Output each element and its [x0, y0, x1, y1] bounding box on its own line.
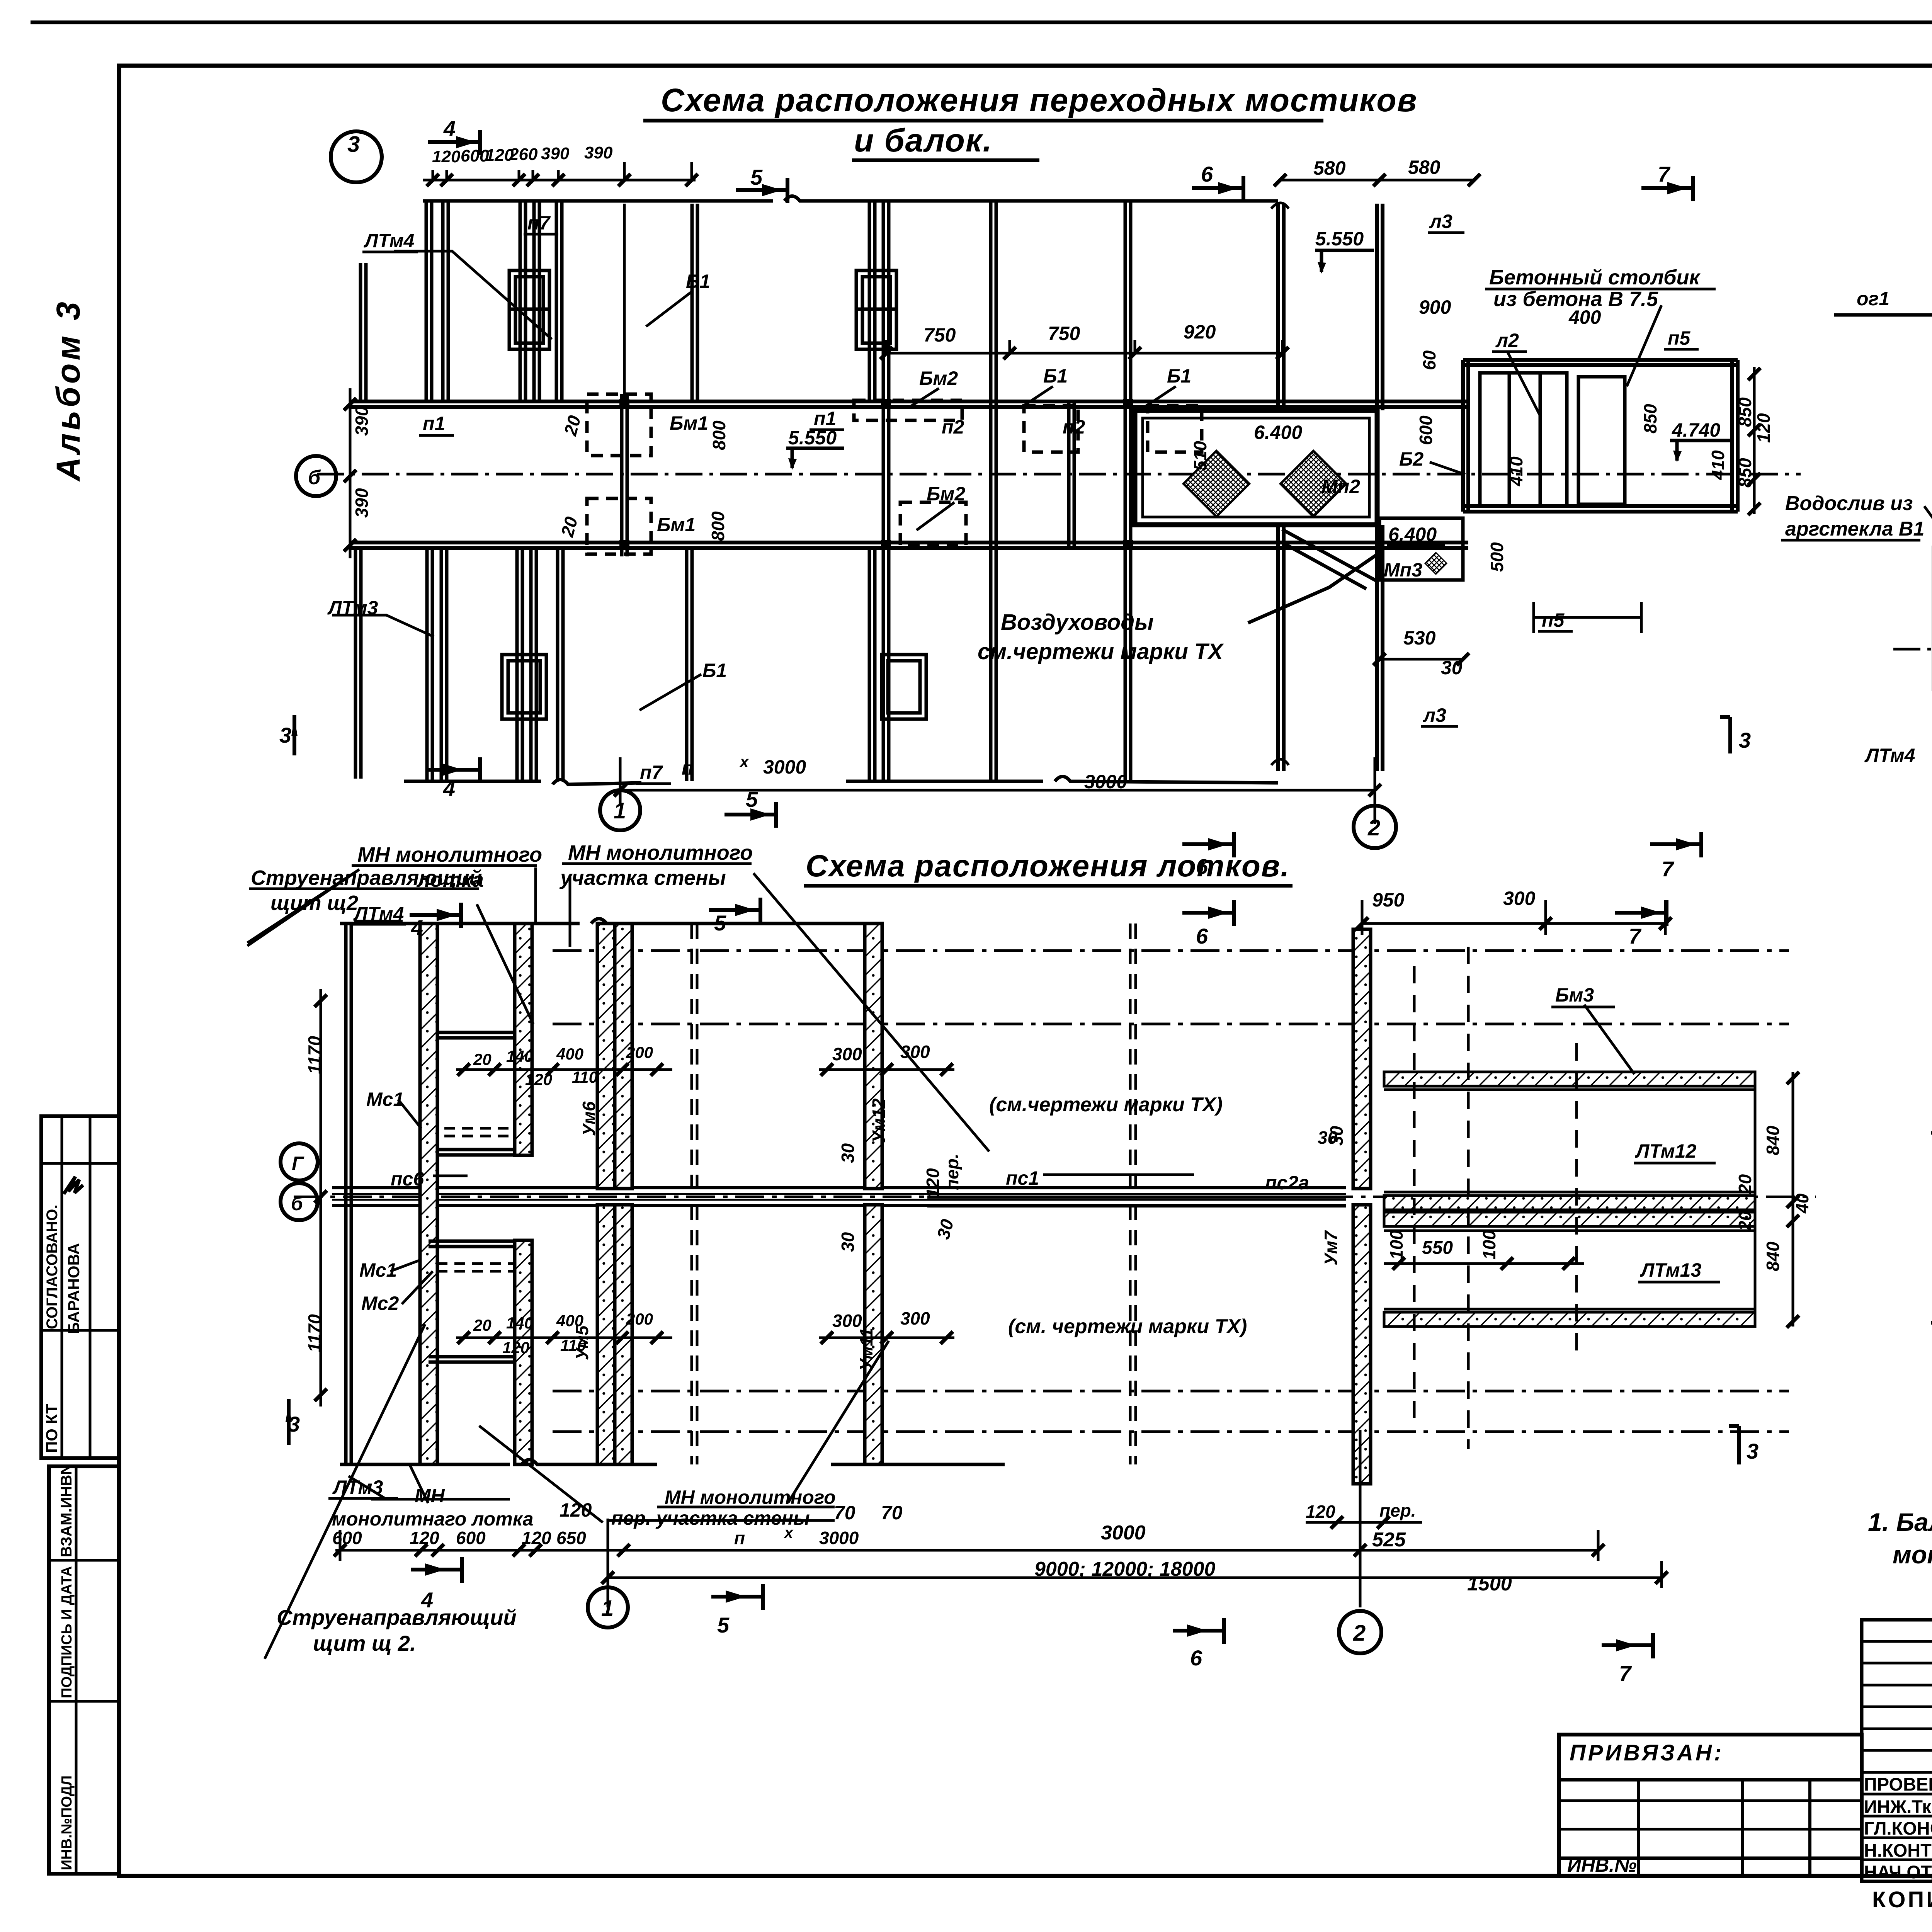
svg-text:щит щ2: щит щ2	[270, 891, 358, 915]
svg-text:6.400: 6.400	[1388, 524, 1437, 545]
svg-text:300: 300	[900, 1042, 930, 1062]
svg-text:5: 5	[746, 787, 758, 811]
svg-text:410: 410	[1506, 456, 1526, 486]
svg-text:30: 30	[1441, 657, 1463, 679]
svg-text:Бм1: Бм1	[670, 412, 708, 434]
svg-text:4: 4	[443, 116, 456, 141]
svg-text:п1: п1	[814, 408, 836, 429]
svg-text:монолитными участками стен.: монолитными участками стен.	[1893, 1540, 1932, 1569]
svg-text:3: 3	[1739, 728, 1751, 752]
svg-text:7: 7	[1629, 924, 1642, 948]
svg-text:Бм1: Бм1	[657, 514, 696, 536]
svg-text:70: 70	[881, 1502, 903, 1524]
svg-text:120: 120	[522, 1528, 551, 1548]
svg-text:390: 390	[352, 488, 372, 518]
svg-text:ЛТм3: ЛТм3	[327, 597, 378, 619]
svg-text:30: 30	[1327, 1126, 1347, 1146]
svg-text:800: 800	[708, 511, 728, 541]
svg-text:Ум7: Ум7	[1321, 1230, 1341, 1265]
svg-text:п7: п7	[640, 762, 663, 783]
svg-text:9000; 12000; 18000: 9000; 12000; 18000	[1034, 1558, 1215, 1580]
svg-text:120: 120	[923, 1168, 943, 1198]
svg-text:Бм2: Бм2	[927, 483, 965, 505]
svg-text:120: 120	[1753, 413, 1774, 443]
svg-text:1: 1	[601, 1596, 614, 1621]
svg-text:ИНЖ.Тк.: ИНЖ.Тк.	[1864, 1796, 1932, 1817]
svg-text:ИНВ.№: ИНВ.№	[1567, 1854, 1636, 1876]
svg-text:70: 70	[834, 1502, 855, 1524]
svg-text:п1: п1	[423, 413, 445, 434]
svg-text:Б1: Б1	[702, 660, 727, 681]
svg-text:60: 60	[1419, 350, 1439, 370]
svg-text:ПО КТ: ПО КТ	[43, 1404, 61, 1453]
svg-text:Ум12: Ум12	[869, 1098, 889, 1143]
svg-text:аргстекла В1: аргстекла В1	[1785, 518, 1924, 540]
svg-text:Струенаправляющий: Струенаправляющий	[251, 866, 482, 889]
svg-text:650: 650	[556, 1528, 586, 1548]
svg-text:Мс1: Мс1	[359, 1259, 397, 1281]
svg-text:400: 400	[1568, 306, 1601, 328]
svg-text:20: 20	[473, 1050, 492, 1068]
svg-text:900: 900	[1419, 296, 1451, 318]
svg-text:Струенаправляющий: Струенаправляющий	[277, 1605, 517, 1629]
svg-text:7: 7	[1662, 857, 1675, 881]
svg-text:300: 300	[1503, 888, 1536, 909]
svg-text:б: б	[308, 466, 321, 489]
svg-text:пер.: пер.	[942, 1153, 962, 1190]
svg-text:100: 100	[1479, 1230, 1499, 1260]
svg-text:510: 510	[1190, 441, 1210, 471]
svg-text:НАЧ.ОТД: НАЧ.ОТД	[1864, 1862, 1932, 1882]
svg-text:950: 950	[1372, 889, 1405, 911]
svg-text:5.550: 5.550	[1315, 228, 1364, 250]
svg-text:200: 200	[626, 1043, 653, 1061]
svg-text:3: 3	[347, 132, 360, 157]
svg-text:Мп3: Мп3	[1384, 559, 1422, 581]
svg-text:120: 120	[432, 147, 461, 166]
svg-text:ЛТм12: ЛТм12	[1635, 1140, 1696, 1162]
svg-text:см.чертежи марки ТХ: см.чертежи марки ТХ	[978, 639, 1224, 664]
svg-text:ЛТм4: ЛТм4	[364, 230, 414, 252]
svg-text:120: 120	[410, 1528, 439, 1548]
svg-text:Ум11: Ум11	[856, 1328, 876, 1371]
svg-text:Б2: Б2	[1399, 448, 1423, 470]
svg-text:ВЗАМ.ИНВN: ВЗАМ.ИНВN	[58, 1464, 75, 1557]
svg-text:Воздуховоды: Воздуховоды	[1001, 610, 1154, 635]
svg-text:ЛТм3: ЛТм3	[332, 1476, 383, 1498]
svg-text:ПРОВЕР.: ПРОВЕР.	[1864, 1774, 1932, 1794]
svg-text:МН монолитного: МН монолитного	[568, 841, 753, 864]
svg-text:п2: п2	[942, 416, 964, 438]
svg-text:300: 300	[900, 1308, 930, 1328]
svg-text:530: 530	[1403, 627, 1436, 649]
svg-text:6: 6	[1196, 924, 1208, 948]
svg-text:20: 20	[1735, 1211, 1755, 1231]
svg-text:КОПИРОВАЛ: ЛОГИНОВА: КОПИРОВАЛ: ЛОГИНОВА	[1872, 1887, 1932, 1912]
svg-text:120: 120	[525, 1070, 552, 1088]
svg-text:3: 3	[279, 723, 291, 747]
svg-text:120: 120	[502, 1338, 529, 1357]
svg-text:140: 140	[506, 1047, 533, 1065]
svg-text:пер. участка стены: пер. участка стены	[611, 1507, 810, 1529]
svg-text:Схема расположения лотков.: Схема расположения лотков.	[806, 849, 1290, 883]
svg-text:30: 30	[838, 1143, 858, 1163]
svg-text:20: 20	[557, 514, 582, 539]
svg-text:260: 260	[509, 145, 538, 164]
svg-text:840: 840	[1763, 1242, 1783, 1271]
svg-text:7: 7	[1658, 162, 1671, 186]
svg-text:Б1: Б1	[686, 270, 710, 292]
svg-text:500: 500	[1487, 542, 1507, 572]
svg-text:850: 850	[1735, 397, 1755, 427]
svg-text:монолитнаго лотка: монолитнаго лотка	[332, 1508, 533, 1530]
svg-text:5: 5	[717, 1613, 730, 1637]
svg-text:750: 750	[1048, 323, 1080, 344]
svg-text:390: 390	[584, 143, 613, 162]
svg-text:2: 2	[1367, 815, 1380, 840]
svg-text:п2: п2	[1063, 416, 1085, 438]
svg-text:20: 20	[1735, 1174, 1755, 1194]
svg-text:525: 525	[1372, 1529, 1406, 1551]
svg-text:Б1: Б1	[1043, 365, 1068, 387]
svg-text:Водослив из: Водослив из	[1785, 492, 1913, 515]
svg-text:1170: 1170	[304, 1036, 325, 1074]
svg-text:х: х	[739, 753, 749, 770]
svg-text:5: 5	[750, 165, 763, 189]
svg-text:2: 2	[1353, 1621, 1366, 1646]
svg-text:3000: 3000	[819, 1528, 859, 1548]
svg-text:ПОДПИСЬ И ДАТА: ПОДПИСЬ И ДАТА	[59, 1566, 75, 1698]
svg-text:600: 600	[461, 146, 489, 165]
svg-text:30: 30	[838, 1232, 858, 1252]
svg-text:ИНВ.№ПОДЛ: ИНВ.№ПОДЛ	[59, 1776, 75, 1870]
svg-text:110: 110	[572, 1068, 598, 1086]
svg-text:СОГЛАСОВАНО.: СОГЛАСОВАНО.	[44, 1204, 61, 1329]
svg-text:(см.чертежи марки ТХ): (см.чертежи марки ТХ)	[989, 1094, 1223, 1116]
svg-text:3: 3	[1747, 1439, 1759, 1463]
svg-text:ГЛ.КОНСТР: ГЛ.КОНСТР	[1864, 1818, 1932, 1838]
svg-text:390: 390	[352, 406, 372, 436]
svg-text:п: п	[734, 1528, 745, 1548]
svg-text:750: 750	[923, 324, 956, 346]
svg-text:п7: п7	[527, 212, 551, 234]
svg-text:х: х	[784, 1524, 794, 1541]
svg-text:МН: МН	[415, 1485, 445, 1507]
svg-text:6: 6	[1201, 162, 1213, 186]
svg-text:Альбом 3: Альбом 3	[50, 299, 87, 482]
svg-text:Схема расположения переходных: Схема расположения переходных мостиков	[661, 82, 1417, 118]
svg-text:б: б	[291, 1193, 304, 1214]
svg-text:участка стены: участка стены	[559, 866, 726, 889]
svg-text:л2: л2	[1495, 330, 1519, 351]
svg-text:4: 4	[421, 1588, 433, 1612]
svg-text:600: 600	[456, 1528, 486, 1548]
svg-text:п5: п5	[1542, 609, 1565, 631]
svg-text:5: 5	[714, 911, 726, 935]
svg-text:1170: 1170	[304, 1314, 325, 1352]
svg-text:МН монолитного: МН монолитного	[665, 1486, 836, 1508]
svg-text:6.400: 6.400	[1254, 422, 1302, 443]
svg-text:840: 840	[1763, 1126, 1783, 1155]
svg-text:БАРАНОВА: БАРАНОВА	[65, 1243, 83, 1334]
svg-text:20: 20	[473, 1316, 492, 1334]
svg-text:Н.КОНТР.: Н.КОНТР.	[1864, 1840, 1932, 1861]
svg-text:300: 300	[832, 1311, 862, 1331]
svg-text:пс1: пс1	[1006, 1167, 1039, 1189]
svg-text:МН монолитного: МН монолитного	[357, 843, 542, 866]
svg-text:6: 6	[1190, 1646, 1202, 1670]
svg-text:3: 3	[288, 1412, 300, 1436]
svg-text:6: 6	[1196, 854, 1208, 879]
svg-text:850: 850	[1735, 458, 1755, 488]
svg-text:4: 4	[411, 915, 423, 940]
svg-text:4.740: 4.740	[1672, 419, 1720, 441]
svg-text:Ум5: Ум5	[572, 1325, 592, 1360]
svg-text:Б1: Б1	[1167, 365, 1191, 387]
svg-text:850: 850	[1640, 404, 1660, 434]
svg-text:30: 30	[933, 1217, 957, 1241]
svg-text:л3: л3	[1423, 704, 1446, 726]
svg-text:300: 300	[832, 1044, 862, 1064]
svg-text:пер.: пер.	[1379, 1500, 1416, 1520]
svg-text:580: 580	[1408, 156, 1440, 178]
svg-text:600: 600	[1416, 415, 1436, 445]
svg-text:л3: л3	[1429, 211, 1452, 232]
svg-text:п5: п5	[1668, 327, 1691, 349]
svg-text:ЛТм13: ЛТм13	[1640, 1259, 1701, 1281]
svg-text:20: 20	[560, 413, 585, 438]
svg-text:п: п	[682, 757, 694, 779]
svg-text:и балок.: и балок.	[854, 122, 993, 158]
svg-text:Бетонный столбик: Бетонный столбик	[1489, 266, 1701, 289]
svg-text:1. Балки Бм1, Бм2 бетонировать: 1. Балки Бм1, Бм2 бетонировать одновреме…	[1868, 1508, 1932, 1536]
svg-text:Мс2: Мс2	[361, 1293, 399, 1314]
svg-text:600: 600	[332, 1528, 362, 1548]
svg-text:1: 1	[614, 798, 626, 823]
svg-text:3000: 3000	[763, 756, 806, 778]
svg-text:Бм2: Бм2	[919, 367, 958, 389]
svg-text:3000: 3000	[1101, 1522, 1146, 1544]
svg-text:Бм3: Бм3	[1555, 984, 1594, 1006]
svg-text:120: 120	[560, 1499, 592, 1521]
svg-text:пс6: пс6	[391, 1168, 424, 1190]
svg-text:Мс1: Мс1	[366, 1088, 404, 1110]
svg-text:Ум6: Ум6	[579, 1101, 599, 1136]
svg-text:Г: Г	[292, 1153, 304, 1174]
svg-text:7: 7	[1619, 1661, 1632, 1685]
svg-text:ог1: ог1	[1857, 288, 1889, 310]
svg-text:пс2а: пс2а	[1265, 1172, 1309, 1194]
svg-text:Мп2: Мп2	[1321, 476, 1360, 497]
svg-text:1500: 1500	[1467, 1573, 1512, 1595]
svg-text:ЛТм4: ЛТм4	[1864, 745, 1915, 766]
svg-text:100: 100	[1386, 1230, 1406, 1260]
svg-text:390: 390	[541, 144, 570, 163]
svg-text:410: 410	[1708, 450, 1728, 480]
svg-text:800: 800	[709, 420, 729, 450]
svg-text:140: 140	[506, 1314, 533, 1332]
svg-text:4: 4	[443, 776, 455, 801]
svg-text:550: 550	[1422, 1238, 1453, 1258]
svg-text:3000: 3000	[1084, 771, 1127, 793]
svg-text:120: 120	[1306, 1502, 1335, 1522]
svg-text:40: 40	[1792, 1193, 1812, 1214]
svg-text:ПРИВЯЗАН:: ПРИВЯЗАН:	[1570, 1740, 1724, 1765]
svg-text:580: 580	[1313, 157, 1346, 179]
svg-text:920: 920	[1184, 321, 1216, 343]
svg-text:200: 200	[626, 1310, 653, 1328]
svg-text:(см. чертежи марки ТХ): (см. чертежи марки ТХ)	[1008, 1315, 1247, 1338]
svg-text:400: 400	[556, 1045, 583, 1063]
svg-text:щит щ 2.: щит щ 2.	[313, 1631, 416, 1655]
svg-text:ЛТм4: ЛТм4	[353, 903, 404, 925]
